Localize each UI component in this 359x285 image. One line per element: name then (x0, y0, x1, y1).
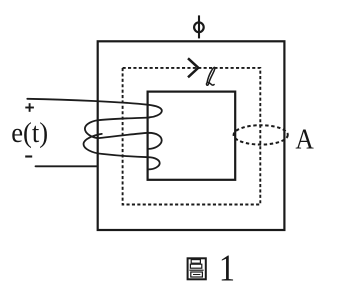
svg-text:e(t): e(t) (11, 117, 48, 148)
svg-text:A: A (295, 123, 314, 155)
svg-text:1: 1 (219, 247, 235, 285)
